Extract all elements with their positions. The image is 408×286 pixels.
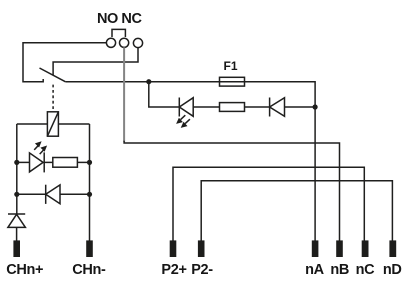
junction node at fuse branch bbox=[146, 79, 151, 84]
left rail CHn+ bbox=[16, 124, 18, 214]
wire diode V5 to CHn+ terminal bbox=[16, 227, 18, 240]
resistor R2 bbox=[53, 158, 78, 168]
terminal nA bbox=[312, 240, 319, 257]
wire common rail to fuse and nA bbox=[65, 82, 315, 241]
wire COM to nB terminal bbox=[124, 141, 339, 241]
wire NO contact to left rail bbox=[23, 43, 106, 82]
junction node right diode row bbox=[87, 192, 92, 197]
svg-text:nD: nD bbox=[383, 262, 402, 278]
diode V4 triangle bbox=[46, 185, 60, 204]
LED V1 arrow 2 bbox=[181, 119, 190, 128]
contact circle NC (14) bbox=[133, 38, 142, 47]
relay coil K1 bbox=[47, 112, 58, 136]
terminal nB bbox=[336, 240, 343, 257]
resistor R1 bbox=[220, 103, 245, 112]
diode V2 cathode bar bbox=[269, 98, 271, 117]
terminal CHn- bbox=[86, 240, 93, 257]
terminal nD bbox=[389, 240, 396, 257]
svg-text:P2-: P2- bbox=[191, 262, 213, 278]
contact circle NO (11) bbox=[106, 38, 115, 47]
svg-text:nC: nC bbox=[356, 262, 376, 278]
LED V3 arrow 2 bbox=[40, 146, 47, 155]
contact circle COM (12) bbox=[120, 38, 129, 47]
terminal CHn+ bbox=[13, 240, 20, 257]
LED V3 triangle bbox=[30, 153, 44, 172]
svg-text:nA: nA bbox=[305, 262, 325, 278]
wire coil to right rail bbox=[58, 123, 89, 125]
junction node right LED row bbox=[87, 160, 92, 165]
wire left rail to coil bbox=[17, 123, 48, 125]
LED V1 arrow 1 bbox=[176, 115, 185, 124]
LED V3 cathode bar bbox=[43, 152, 45, 172]
junction node on nA rail bbox=[313, 104, 318, 109]
dashed actuation link bbox=[52, 85, 54, 112]
wire P2- to nD terminal bbox=[201, 181, 392, 241]
relay switch blade K1 bbox=[40, 68, 66, 82]
svg-text:NO NC: NO NC bbox=[97, 11, 142, 27]
terminal P2- bbox=[198, 240, 205, 257]
bracket linking NO and NC contacts bbox=[112, 29, 125, 37]
wire diode V2 to nA rail bbox=[285, 106, 316, 108]
LED V1 triangle bbox=[179, 98, 193, 117]
svg-text:F1: F1 bbox=[224, 59, 238, 73]
gray actuation wire from COM contact bbox=[123, 47, 125, 141]
wire branch down to LED branch bbox=[149, 82, 180, 107]
junction node left LED row bbox=[14, 160, 19, 165]
LED V1 cathode bar bbox=[178, 98, 180, 117]
diode V4 cathode bar bbox=[45, 185, 47, 204]
LED V3 arrow 1 bbox=[34, 141, 41, 150]
svg-text:CHn-: CHn- bbox=[72, 262, 106, 278]
terminal nC bbox=[362, 240, 369, 257]
wire diode V4 to right rail bbox=[60, 193, 90, 195]
wire resistor R2 to right rail bbox=[77, 161, 89, 163]
right rail CHn- bbox=[89, 124, 91, 241]
wire P2+ to nC terminal bbox=[173, 167, 364, 240]
svg-text:P2+: P2+ bbox=[161, 262, 186, 278]
wire resistor R1 to diode V2 bbox=[245, 106, 270, 108]
wire NC contact drop bbox=[53, 48, 138, 76]
terminal P2+ bbox=[170, 240, 177, 257]
svg-text:CHn+: CHn+ bbox=[6, 262, 43, 278]
junction node left diode row bbox=[14, 192, 19, 197]
svg-text:nB: nB bbox=[330, 262, 349, 278]
diode V5 triangle bbox=[8, 214, 26, 227]
wire to LED V3 bbox=[17, 161, 30, 163]
fuse F1 bbox=[220, 77, 245, 86]
wire LED V1 to resistor R1 bbox=[193, 106, 219, 108]
diode V2 triangle bbox=[270, 98, 285, 117]
wire to diode V4 bbox=[17, 193, 46, 195]
diode V5 cathode bar bbox=[8, 213, 25, 215]
wire LED V3 to resistor R2 bbox=[44, 161, 53, 163]
